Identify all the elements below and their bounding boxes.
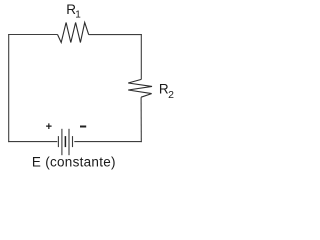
battery plate 1 (short) [57, 136, 59, 147]
battery E (5 plates: short-long-short-long-short) [58, 129, 72, 155]
wire: top-right corner down to R2 top lead [140, 34, 142, 79]
svg-text:1: 1 [75, 10, 81, 21]
resistor R2 (zigzag, right wire) [128, 79, 152, 97]
wire: left side (bottom-left corner up to top-left corner) [8, 34, 10, 142]
wire: R1 right lead to top-right corner [89, 34, 142, 36]
battery plate 2 (long) [61, 129, 63, 155]
svg-text:E (constante): E (constante) [32, 154, 116, 169]
svg-text:2: 2 [168, 89, 174, 101]
battery polarity &#8722; [80, 126, 86, 128]
battery plate 3 (short) [64, 136, 66, 147]
wire: bottom-right corner to battery negative terminal [74, 141, 142, 143]
battery plate 4 (long) [68, 129, 70, 155]
wire: top-left corner to R1 left lead [8, 34, 57, 36]
wire: battery positive terminal to bottom-left corner [8, 141, 57, 143]
resistor R1 (zigzag, top wire) [58, 23, 89, 43]
battery plate 5 (short) [72, 136, 74, 147]
svg-text:+: + [46, 121, 52, 133]
wire: R2 bottom lead to bottom-right corner [140, 97, 142, 142]
